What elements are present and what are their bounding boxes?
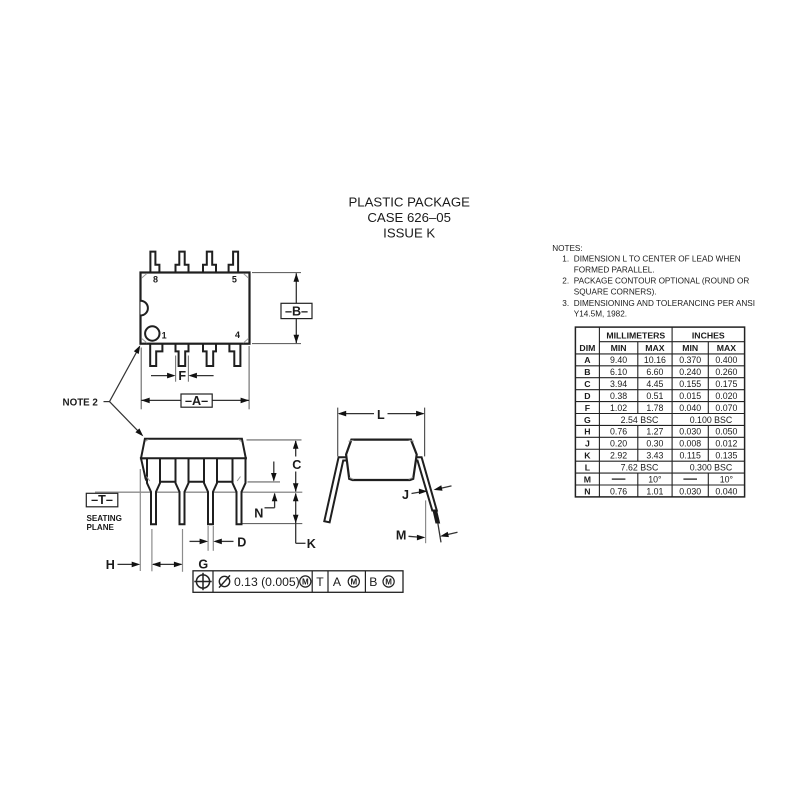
end view: package body <box>346 440 417 480</box>
top view: pin 5 lead <box>229 252 239 273</box>
dimension C line, arrows, label <box>292 440 301 492</box>
end view: right lead thin tip line <box>438 524 441 543</box>
dimension L extension lines <box>338 408 425 457</box>
svg-text:FORMED PARALLEL.: FORMED PARALLEL. <box>574 265 655 274</box>
dimension B extension lines <box>252 273 301 344</box>
svg-text:MAX: MAX <box>645 343 665 353</box>
svg-text:–T–: –T– <box>91 493 113 507</box>
svg-text:A: A <box>333 575 342 589</box>
svg-text:0.240: 0.240 <box>679 367 701 377</box>
svg-text:PACKAGE CONTOUR OPTIONAL (ROUN: PACKAGE CONTOUR OPTIONAL (ROUND OR <box>574 277 750 286</box>
svg-text:T: T <box>316 575 324 589</box>
svg-text:5: 5 <box>232 275 237 285</box>
end view: left lead <box>324 457 347 522</box>
table header text <box>579 331 736 354</box>
svg-text:4: 4 <box>235 330 240 340</box>
svg-text:0.135: 0.135 <box>715 451 737 461</box>
svg-text:0.13 (0.005): 0.13 (0.005) <box>234 575 300 589</box>
svg-text:10°: 10° <box>720 474 733 484</box>
svg-text:0.040: 0.040 <box>679 403 701 413</box>
lead 1 center extension line <box>151 529 153 571</box>
diameter symbol <box>219 576 229 586</box>
svg-text:K: K <box>584 451 591 461</box>
svg-text:6.10: 6.10 <box>610 367 627 377</box>
NOTE 2 label and leader arrows <box>63 345 144 436</box>
svg-text:G: G <box>584 415 591 425</box>
svg-text:INCHES: INCHES <box>692 331 725 341</box>
svg-text:2.92: 2.92 <box>610 451 627 461</box>
dimension F extension lines <box>176 356 189 382</box>
side view: corner chamfer ticks <box>145 439 241 481</box>
svg-text:NOTE 2: NOTE 2 <box>63 397 99 408</box>
dimension F arrows and label <box>151 369 214 383</box>
side view: body lower slab <box>141 458 246 482</box>
dimension G double arrow and label <box>152 558 208 572</box>
svg-text:G: G <box>198 558 208 572</box>
M angle reference line <box>425 500 427 543</box>
svg-text:4.45: 4.45 <box>646 379 663 389</box>
dimension N arrows, label <box>254 462 277 521</box>
M modifier circle 2 <box>348 576 359 587</box>
dimension A extension lines <box>141 346 249 409</box>
svg-text:K: K <box>307 537 316 551</box>
svg-text:L: L <box>377 408 385 422</box>
dimension B line and arrows <box>281 273 312 343</box>
svg-text:0.155: 0.155 <box>679 379 701 389</box>
M modifier circle 3 <box>383 576 394 587</box>
dimension A line, arrows and label <box>141 394 249 408</box>
svg-text:ISSUE K: ISSUE K <box>383 225 435 240</box>
seating plane -T- box <box>86 493 122 532</box>
svg-text:1.02: 1.02 <box>610 403 627 413</box>
svg-text:3.94: 3.94 <box>610 379 627 389</box>
svg-text:0.76: 0.76 <box>610 427 627 437</box>
svg-text:7.62 BSC: 7.62 BSC <box>621 463 659 473</box>
M modifier circle 1 <box>300 576 311 587</box>
end view: right lead dark segment <box>432 510 440 524</box>
C top extension line <box>247 439 302 441</box>
svg-text:M: M <box>396 528 407 542</box>
top view: pin 4 lead <box>229 344 240 366</box>
svg-text:0.050: 0.050 <box>715 427 737 437</box>
seating plane line <box>95 491 249 493</box>
svg-text:1.27: 1.27 <box>646 427 663 437</box>
lead tip extension line <box>242 523 303 525</box>
dimension D arrows and label <box>190 535 247 549</box>
svg-text:0.020: 0.020 <box>715 391 737 401</box>
svg-text:0.300 BSC: 0.300 BSC <box>690 463 733 473</box>
svg-text:L: L <box>585 463 591 473</box>
svg-text:DIMENSIONING AND TOLERANCING P: DIMENSIONING AND TOLERANCING PER ANSI <box>574 299 755 308</box>
body bottom extension line <box>248 481 281 483</box>
top view: pin 3 lead <box>203 344 216 366</box>
svg-text:1: 1 <box>162 331 167 341</box>
svg-text:2.: 2. <box>562 277 569 286</box>
svg-text:F: F <box>178 369 186 383</box>
svg-text:M: M <box>302 578 309 587</box>
top view: corner chamfer ticks <box>141 273 248 343</box>
table DIM letters <box>584 355 591 496</box>
lead 2 center extension line <box>182 529 184 572</box>
top view: package body <box>141 273 250 344</box>
svg-text:C: C <box>292 458 301 472</box>
svg-text:1.78: 1.78 <box>646 403 663 413</box>
top view: index notch semicircle <box>141 301 148 316</box>
svg-text:N: N <box>254 507 263 521</box>
svg-text:0.30: 0.30 <box>646 439 663 449</box>
svg-text:1.: 1. <box>562 255 569 264</box>
top view: pin 7 lead <box>176 252 189 273</box>
svg-text:B: B <box>584 367 590 377</box>
svg-text:0.015: 0.015 <box>679 391 701 401</box>
svg-text:DIMENSION L TO CENTER OF LEAD: DIMENSION L TO CENTER OF LEAD WHEN <box>574 255 741 264</box>
svg-text:MILLIMETERS: MILLIMETERS <box>606 331 665 341</box>
svg-text:PLASTIC PACKAGE: PLASTIC PACKAGE <box>348 194 470 209</box>
svg-text:MIN: MIN <box>682 343 698 353</box>
svg-text:0.115: 0.115 <box>680 451 701 461</box>
svg-text:F: F <box>585 403 590 413</box>
dimension J arrows and label <box>402 485 452 502</box>
svg-text:Y14.5M, 1982.: Y14.5M, 1982. <box>574 310 627 319</box>
svg-text:0.76: 0.76 <box>610 486 627 496</box>
svg-text:SEATING: SEATING <box>87 514 122 523</box>
svg-text:0.175: 0.175 <box>715 379 737 389</box>
dimension H arrow and label <box>106 558 140 572</box>
svg-text:0.260: 0.260 <box>715 367 737 377</box>
svg-text:M: M <box>584 474 591 484</box>
svg-text:0.100 BSC: 0.100 BSC <box>690 415 733 425</box>
top view: pin 1 lead <box>150 344 162 366</box>
svg-text:J: J <box>585 439 590 449</box>
table M row dashes <box>612 478 697 480</box>
svg-text:3.43: 3.43 <box>646 451 663 461</box>
top view: pin 1 marker circle <box>145 326 159 340</box>
svg-text:3.: 3. <box>562 299 569 308</box>
svg-text:PLANE: PLANE <box>87 523 115 532</box>
svg-text:DIM: DIM <box>579 343 595 353</box>
svg-text:8: 8 <box>153 275 158 285</box>
svg-text:M: M <box>385 578 392 587</box>
side view: lead 4 <box>233 458 246 524</box>
svg-text:0.040: 0.040 <box>715 486 737 496</box>
svg-text:D: D <box>237 535 246 549</box>
dimension H extension line (body edge) <box>139 469 141 571</box>
svg-text:–A–: –A– <box>185 394 208 408</box>
svg-text:SQUARE CORNERS).: SQUARE CORNERS). <box>574 287 657 296</box>
svg-text:–B–: –B– <box>285 305 308 319</box>
top view: pin 2 lead <box>176 344 189 366</box>
dimension D extension lines <box>207 526 209 551</box>
svg-text:0.20: 0.20 <box>610 439 627 449</box>
svg-text:10.16: 10.16 <box>644 355 666 365</box>
title: PLASTIC PACKAGE / CASE 626-05 / ISSUE K <box>348 194 470 240</box>
svg-text:C: C <box>584 379 591 389</box>
svg-text:0.38: 0.38 <box>610 391 627 401</box>
svg-text:0.370: 0.370 <box>679 355 701 365</box>
table values <box>610 355 737 496</box>
position symbol <box>196 575 209 588</box>
svg-text:10°: 10° <box>648 474 661 484</box>
svg-text:0.400: 0.400 <box>715 355 737 365</box>
svg-text:0.030: 0.030 <box>679 427 701 437</box>
svg-text:J: J <box>402 488 409 502</box>
svg-text:6.60: 6.60 <box>646 367 663 377</box>
side view: body top cap <box>141 439 246 459</box>
svg-text:0.012: 0.012 <box>715 439 737 449</box>
end view: right lead <box>413 457 437 510</box>
svg-text:H: H <box>106 558 115 572</box>
dimension M arrows and label <box>396 528 458 542</box>
side view: lead 3 <box>204 458 217 524</box>
side view: lead 2 <box>176 458 189 524</box>
svg-text:1.01: 1.01 <box>646 486 663 496</box>
svg-text:N: N <box>584 486 590 496</box>
top view: pin 6 lead <box>203 252 216 273</box>
svg-text:9.40: 9.40 <box>610 355 627 365</box>
svg-text:0.51: 0.51 <box>646 391 663 401</box>
svg-text:D: D <box>584 391 590 401</box>
svg-text:MIN: MIN <box>611 343 627 353</box>
end view: corner chamfer ticks <box>349 440 414 479</box>
svg-text:0.070: 0.070 <box>715 403 737 413</box>
svg-text:B: B <box>369 575 377 589</box>
top view: pin 8 lead <box>150 252 159 273</box>
dimension K line, arrows, label <box>293 493 316 551</box>
svg-text:H: H <box>584 427 590 437</box>
svg-text:2.54 BSC: 2.54 BSC <box>621 415 659 425</box>
svg-text:MAX: MAX <box>717 343 737 353</box>
svg-text:0.030: 0.030 <box>679 486 701 496</box>
side view: lead 1 <box>147 458 160 524</box>
svg-text:0.008: 0.008 <box>679 439 701 449</box>
svg-text:NOTES:: NOTES: <box>552 244 582 253</box>
svg-text:CASE 626–05: CASE 626–05 <box>367 210 451 225</box>
svg-text:M: M <box>350 578 357 587</box>
dimension L line, arrows, label <box>338 408 425 422</box>
svg-text:A: A <box>584 355 591 365</box>
